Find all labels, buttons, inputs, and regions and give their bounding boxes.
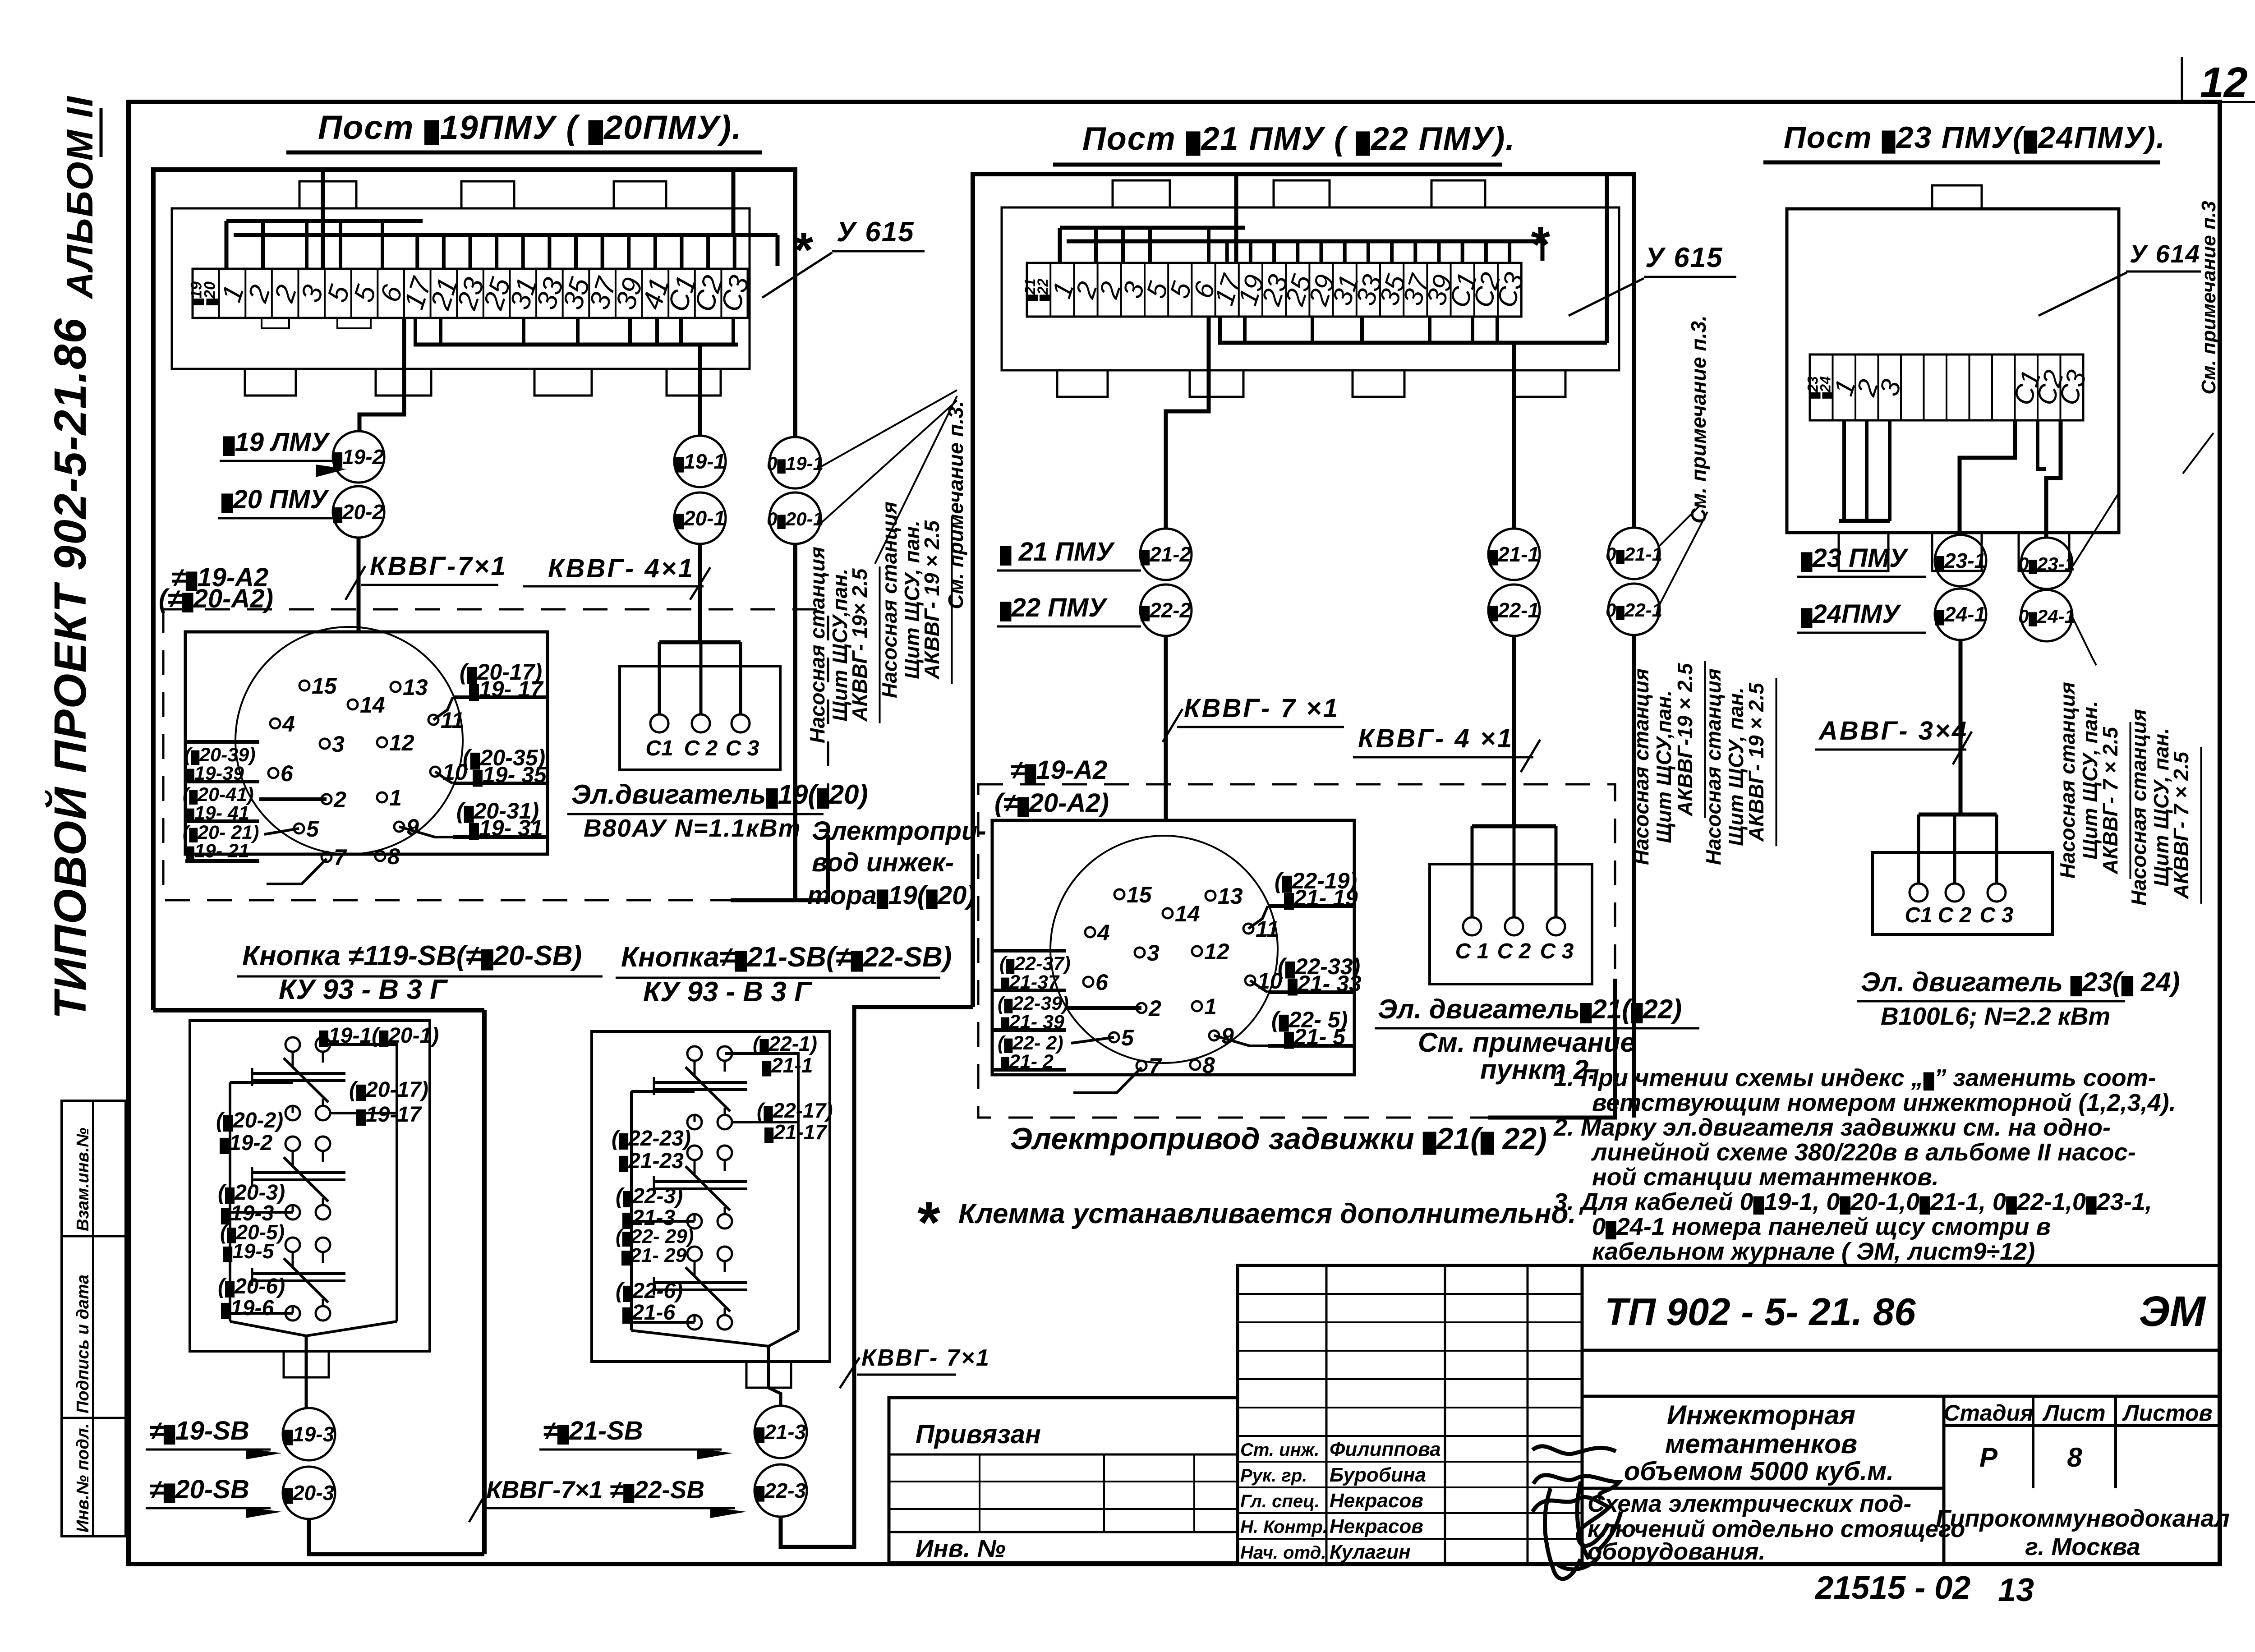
pin 14 B — [1163, 908, 1173, 918]
wire stub — [1390, 241, 1394, 263]
motor box A — [620, 666, 780, 770]
wire stub — [706, 235, 710, 269]
label rule left A — [185, 859, 259, 863]
label rule left B — [992, 1068, 1066, 1072]
leader 0-22-1 — [1660, 512, 1707, 604]
motor terminal C — [1988, 884, 2006, 902]
svg-text:Ст. инж.: Ст. инж. — [1240, 1440, 1319, 1460]
svg-text:Инжекторная: Инжекторная — [1667, 1400, 1855, 1430]
wire stub — [1243, 317, 1247, 343]
wire stub — [679, 318, 683, 345]
svg-text:8: 8 — [1202, 1053, 1215, 1078]
svg-text:14: 14 — [1175, 901, 1200, 926]
wire to 21-2 — [1166, 317, 1209, 528]
svg-text:Насосная станция: Насосная станция — [2127, 709, 2150, 906]
svg-text:2. Марку эл.двигателя задвижк: 2. Марку эл.двигателя задвижки см. на од… — [1553, 1114, 2111, 1141]
svg-text:0█20-1: 0█20-1 — [767, 508, 824, 529]
svg-text:вод инжек-: вод инжек- — [812, 848, 954, 877]
svg-text:3. Для кабелей 0█19-1, 0█20-1: 3. Для кабелей 0█19-1, 0█20-1,0█21-1, 0█… — [1554, 1188, 2152, 1215]
wire stub — [1296, 241, 1299, 263]
motor bus C — [1919, 813, 1997, 817]
wire 20-2 to connector — [357, 538, 361, 632]
svg-text:*: * — [1529, 217, 1551, 272]
wire stub — [1484, 241, 1488, 263]
svg-text:Насосная станция: Насосная станция — [878, 502, 901, 698]
svg-text:Подпись и дата: Подпись и дата — [74, 1275, 92, 1413]
connector circle outline B — [1050, 836, 1278, 1063]
contact A2 — [285, 1137, 300, 1151]
svg-text:Листов: Листов — [2122, 1400, 2212, 1426]
label rule left B — [992, 989, 1066, 992]
post B bottom tab 2 — [1190, 370, 1243, 397]
wire stub — [442, 235, 446, 269]
svg-text:АВВГ- 3×4: АВВГ- 3×4 — [1818, 716, 1968, 745]
motor bus A — [659, 640, 741, 644]
divider — [1582, 1395, 2220, 1398]
svg-text:0█19-1: 0█19-1 — [767, 453, 824, 474]
svg-text:Клемма устанавливается допол: Клемма устанавливается дополнительно. — [958, 1198, 1576, 1229]
motor terminal B — [1463, 917, 1481, 935]
svg-text:13: 13 — [1998, 1572, 2034, 1608]
title block signature table — [1238, 1265, 1582, 1564]
pin11 hook A — [433, 697, 453, 720]
wire to 19-2 — [359, 318, 404, 432]
motor terminal — [650, 714, 668, 732]
wire stub — [1311, 317, 1314, 343]
post C bottom tab 2 — [1932, 533, 1982, 571]
motor terminal — [692, 714, 710, 732]
slash — [345, 566, 365, 600]
svg-text:Взам.инв.№: Взам.инв.№ — [74, 1127, 92, 1231]
pin 9 A — [394, 822, 404, 832]
svg-text:13: 13 — [403, 675, 428, 700]
svg-text:Электропри-: Электропри- — [812, 816, 986, 846]
wire stub — [439, 318, 442, 345]
svg-text:7: 7 — [1149, 1054, 1162, 1079]
leader 0-21-1 — [1660, 505, 1700, 546]
wire stub — [653, 235, 657, 269]
label rule left A — [185, 780, 259, 783]
contact B3 — [687, 1247, 702, 1261]
label rule left A — [185, 740, 259, 744]
circle 23-1 — [1935, 535, 1986, 586]
frame top extension — [2220, 101, 2255, 103]
circle 0-24-1 — [2021, 590, 2072, 641]
leader join A — [875, 396, 957, 564]
pin 15 B — [1114, 889, 1124, 899]
wire stub — [1121, 228, 1125, 263]
pin 3 A — [320, 739, 330, 749]
motor terminal C — [1946, 884, 1964, 902]
svg-text:См. примечание: См. примечание — [1418, 1027, 1635, 1058]
label rule left A — [185, 819, 259, 823]
leader 0-23-1 — [2073, 492, 2120, 566]
pin 11 B — [1243, 924, 1253, 934]
pin10 hook A — [435, 772, 453, 783]
svg-text:█19-17: █19-17 — [356, 1103, 422, 1127]
svg-text:АКВВГ- 19× 2.5: АКВВГ- 19× 2.5 — [848, 568, 871, 722]
pin2 wire B — [1066, 1006, 1141, 1010]
svg-text:12: 12 — [2200, 59, 2248, 106]
svg-text:Пост █19ПМУ ( █20ПМУ).: Пост █19ПМУ ( █20ПМУ). — [318, 109, 742, 146]
svg-text:14: 14 — [360, 692, 385, 718]
svg-text:1: 1 — [1204, 994, 1217, 1019]
wire C3 to 0-23-1 — [2046, 420, 2061, 537]
wire 22-2 to connector B — [1164, 636, 1168, 820]
motor terminal C — [1910, 884, 1928, 902]
motor terminal B — [1547, 917, 1565, 935]
svg-text:0█24-1 номера панелей щсу: 0█24-1 номера панелей щсу смотри в — [1592, 1213, 2051, 1240]
pin10 hook B — [1250, 980, 1268, 992]
leader — [2039, 272, 2127, 316]
title block right part — [1582, 1265, 2220, 1564]
bus2 A — [234, 233, 778, 237]
dashed box B solid corner — [1488, 979, 1615, 1118]
wire stub — [1148, 228, 1152, 263]
svg-text:Некрасов: Некрасов — [1330, 1490, 1423, 1512]
post A bottom tab 2 — [376, 369, 431, 396]
label rule left B — [992, 949, 1066, 953]
svg-text:метантенков: метантенков — [1665, 1429, 1857, 1459]
svg-text:объемом 5000 куб.м.: объемом 5000 куб.м. — [1624, 1457, 1894, 1486]
terminal strip A — [193, 269, 748, 318]
svg-text:█21- 39: █21- 39 — [1001, 1011, 1064, 1033]
svg-text:Гипрокоммунводоканал: Гипрокоммунводоканал — [1936, 1505, 2230, 1532]
wire stub — [1225, 241, 1229, 263]
knopka A bottom join — [230, 1321, 397, 1336]
svg-text:Инв. №: Инв. № — [916, 1534, 1006, 1562]
svg-text:Щит ЩСУ,пан.: Щит ЩСУ,пан. — [1652, 690, 1675, 843]
svg-text:█19- 17: █19- 17 — [469, 676, 544, 702]
svg-text:С 2: С 2 — [1938, 903, 1972, 927]
connector circle outline A — [235, 627, 463, 854]
pin 8 A — [375, 851, 385, 861]
wire — [631, 1321, 695, 1324]
bus1 A end drop — [225, 221, 229, 269]
pin 1 A — [377, 792, 387, 802]
post A inner box — [172, 208, 750, 369]
wire stub — [1437, 241, 1441, 263]
wire stub — [414, 318, 417, 345]
wire — [767, 1346, 770, 1388]
pin 10 A — [430, 767, 440, 777]
post C top tab — [1932, 185, 1982, 209]
post C bottom tab 1 — [1839, 533, 1888, 571]
wire — [330, 1112, 397, 1114]
wire stub — [1272, 241, 1276, 263]
svg-text:2: 2 — [1148, 996, 1161, 1021]
wire stub — [1413, 241, 1417, 263]
svg-text:█21-23: █21-23 — [619, 1149, 684, 1173]
svg-text:0█22-1: 0█22-1 — [1606, 599, 1662, 621]
post B outer cable outline — [973, 174, 1634, 1007]
svg-text:3: 3 — [1147, 940, 1160, 966]
wire stub — [1207, 228, 1210, 263]
svg-text:█19 ЛМУ: █19 ЛМУ — [223, 428, 330, 457]
post A top tab 3 — [614, 181, 666, 208]
pin 11 A — [428, 715, 438, 725]
svg-text:Некрасов: Некрасов — [1330, 1515, 1423, 1537]
svg-text:4: 4 — [282, 711, 295, 736]
leader C note — [2183, 433, 2214, 474]
wire stub — [1360, 317, 1364, 343]
slash — [690, 567, 710, 600]
pin 2 A — [322, 794, 331, 804]
stadiya divider — [2032, 1396, 2034, 1488]
wire — [725, 1054, 798, 1060]
svg-text:Пост █21 ПМУ ( █22 ПМУ).: Пост █21 ПМУ ( █22 ПМУ). — [1082, 121, 1515, 157]
pin5 wire B — [1071, 1037, 1114, 1043]
svg-text:АКВВГ-19 × 2.5: АКВВГ-19 × 2.5 — [1673, 663, 1697, 816]
stadiya header underline — [1944, 1424, 2220, 1427]
knopka B left bus — [630, 1091, 633, 1330]
svg-text:15: 15 — [312, 673, 337, 699]
svg-text:15: 15 — [1127, 882, 1152, 907]
wire to 21-1 — [1512, 343, 1516, 528]
svg-text:Р: Р — [1979, 1442, 1998, 1473]
post C bottom tab 3 — [2019, 533, 2069, 571]
leader — [762, 253, 832, 298]
svg-text:В80АУ N=1.1кВт: В80АУ N=1.1кВт — [584, 814, 801, 842]
wire stub — [1428, 317, 1431, 343]
wire — [631, 1090, 695, 1093]
svg-text:АКВВГ- 19 × 2.5: АКВВГ- 19 × 2.5 — [1744, 682, 1768, 842]
contact B1 — [687, 1046, 702, 1061]
wire stub — [339, 221, 342, 269]
SB cable B — [781, 1007, 973, 1547]
pin 5 A — [294, 824, 304, 833]
knopka A right bus — [396, 1045, 398, 1321]
svg-text:█19- 31: █19- 31 — [469, 815, 543, 841]
contact A1 — [285, 1037, 300, 1052]
wire stub — [1320, 241, 1323, 263]
post B inner box — [1002, 207, 1619, 370]
wire stub — [548, 235, 551, 269]
pin7 wire A — [267, 859, 327, 884]
svg-text:Лист: Лист — [2042, 1400, 2105, 1426]
wire C1 to 23-1 — [1960, 420, 2015, 534]
svg-text:█ 21 ПМУ: █ 21 ПМУ — [1000, 537, 1115, 566]
svg-text:█19- 41: █19- 41 — [186, 802, 249, 824]
svg-text:5: 5 — [1121, 1025, 1134, 1050]
wire stub — [521, 235, 525, 269]
connector box B — [992, 820, 1354, 1075]
pin 12 A — [377, 737, 387, 747]
svg-text:АКВВГ- 19 × 2.5: АКВВГ- 19 × 2.5 — [920, 520, 943, 680]
svg-text:С1: С1 — [645, 736, 673, 760]
motor wire C — [1917, 814, 1920, 884]
cable riser A (KVVG to SB) — [482, 1010, 487, 1554]
wire — [305, 1377, 308, 1408]
wire stub — [601, 235, 604, 269]
label rule right A — [453, 695, 548, 699]
leader 0-20-1 — [821, 400, 957, 523]
post A top tab 1 — [299, 181, 356, 208]
wire stub — [732, 318, 735, 345]
svg-text:1. При чтении схемы индекс „█: 1. При чтении схемы индекс „█” заменить … — [1554, 1064, 2156, 1091]
pin2 wire A — [259, 797, 327, 801]
connector circle 19-2 — [333, 431, 384, 483]
slash — [1163, 709, 1183, 742]
contact A3 — [285, 1238, 300, 1252]
circle 0-22-1 — [1608, 584, 1660, 635]
wire 20-1 to motor — [698, 544, 702, 642]
knopka box B — [592, 1031, 830, 1362]
svg-text:Насосная станция: Насосная станция — [1702, 668, 1725, 865]
motor wire B — [1471, 826, 1474, 917]
pin 7 A — [322, 852, 331, 862]
wire — [323, 1045, 397, 1051]
wire stub — [1343, 241, 1347, 263]
wire stub — [1218, 317, 1222, 343]
wire C2 — [2038, 420, 2046, 469]
svg-text:8: 8 — [2067, 1442, 2082, 1473]
svg-text:Насосная станция: Насосная станция — [1629, 668, 1653, 865]
bus2 A right drop — [776, 235, 780, 266]
svg-text:Кнопка ≠119-SB(≠█20-SB): Кнопка ≠119-SB(≠█20-SB) — [242, 940, 582, 971]
svg-text:С 2: С 2 — [1497, 939, 1531, 963]
svg-text:См. примечание п.3: См. примечание п.3 — [2198, 201, 2220, 394]
divider under TP — [1582, 1349, 2220, 1352]
pin 15 A — [299, 681, 309, 690]
circle 24-1 — [1935, 589, 1986, 640]
post B top tab 1 — [1113, 180, 1170, 207]
svg-text:0█21-1: 0█21-1 — [1606, 543, 1662, 565]
svg-text:4: 4 — [1097, 920, 1110, 945]
post B bottom tab 3 — [1353, 370, 1404, 397]
circle 0-23-1 — [2021, 538, 2072, 589]
motor wire — [739, 642, 742, 714]
svg-text:Н. Контр.: Н. Контр. — [1240, 1517, 1328, 1537]
label rule right A — [453, 782, 548, 785]
pin 14 A — [348, 699, 358, 709]
svg-text:█21- 29: █21- 29 — [621, 1244, 687, 1266]
label rule right A — [453, 835, 548, 839]
slash — [1521, 740, 1540, 772]
svg-text:Насосная станция: Насосная станция — [805, 547, 829, 743]
svg-text:Нач. отд.: Нач. отд. — [1240, 1543, 1326, 1563]
svg-text:КУ 93 - В 3 Г: КУ 93 - В 3 Г — [643, 976, 813, 1008]
svg-text:Электропривод задвижки █21(█: Электропривод задвижки █21(█ 22) — [1010, 1122, 1547, 1156]
svg-text:█21-37: █21-37 — [1001, 971, 1060, 993]
wire stub — [1249, 241, 1252, 263]
svg-text:Пост █23 ПМУ(█24ПМУ).: Пост █23 ПМУ(█24ПМУ). — [1784, 120, 2166, 155]
svg-text:С 2: С 2 — [684, 736, 718, 760]
pin 5 B — [1109, 1032, 1119, 1042]
circle 22-3 — [755, 1464, 807, 1517]
svg-text:КВВГ- 4 ×1: КВВГ- 4 ×1 — [1358, 724, 1514, 753]
svg-text:КВВГ-7×1 ≠█22-SB: КВВГ-7×1 ≠█22-SB — [486, 1476, 704, 1504]
signatures scribble — [1532, 1446, 1621, 1579]
knopka B right bus — [797, 1054, 800, 1330]
bus2 B right drop — [1541, 241, 1545, 261]
svg-text:█22 ПМУ: █22 ПМУ — [1000, 593, 1108, 622]
svg-text:АКВВГ- 7 × 2.5: АКВВГ- 7 × 2.5 — [2099, 726, 2122, 874]
wire stub — [628, 318, 632, 345]
svg-text:Кнопка≠█21-SB(≠█22-SB): Кнопка≠█21-SB(≠█22-SB) — [621, 942, 952, 973]
svg-text:Инв.№ подл.: Инв.№ подл. — [74, 1423, 92, 1532]
svg-text:КВВГ- 7×1: КВВГ- 7×1 — [861, 1345, 990, 1371]
label rule right B — [1268, 904, 1354, 908]
post A title underline — [286, 151, 762, 155]
slash — [840, 1357, 860, 1388]
divider — [1582, 1487, 1944, 1490]
pin 4 A — [270, 718, 280, 728]
dashed box A solid corner — [731, 835, 828, 900]
post B title underline — [1053, 163, 1502, 167]
wire stub — [305, 221, 308, 269]
wire stub — [1094, 228, 1098, 263]
connector circle 19-1 — [674, 436, 726, 487]
privyazan table — [889, 1398, 1238, 1563]
post A bottom edge — [153, 1008, 484, 1012]
post A top tab 2 — [461, 181, 514, 208]
motor box B — [1430, 864, 1592, 984]
post A outer cable outline — [153, 170, 795, 1010]
pin 6 A — [268, 768, 278, 778]
svg-text:С 3: С 3 — [1540, 939, 1574, 963]
wire stub — [1367, 241, 1370, 263]
svg-text:9: 9 — [406, 814, 419, 840]
terminal strip C — [1810, 354, 2083, 420]
svg-text:У 615: У 615 — [837, 216, 915, 248]
motor wire C — [1995, 814, 1998, 884]
svg-text:г. Москва: г. Москва — [2025, 1533, 2140, 1560]
svg-text:7: 7 — [334, 845, 347, 870]
wire stub C — [1842, 420, 1846, 521]
wire stub — [576, 318, 580, 345]
wire stub C — [1888, 420, 1891, 521]
svg-text:Насосная станция: Насосная станция — [2056, 682, 2079, 879]
connector box A — [185, 632, 548, 854]
pin9 hook A — [399, 827, 453, 837]
svg-text:С 3: С 3 — [726, 736, 759, 760]
svg-text:оборудования.: оборудования. — [1588, 1538, 1765, 1565]
right bracket B — [1605, 174, 1609, 343]
bus C left — [1839, 519, 1890, 523]
connector circle 20-2 — [333, 486, 384, 538]
post B top tab 2 — [1274, 180, 1330, 207]
svg-text:12: 12 — [1204, 939, 1229, 964]
svg-text:Рук. гр.: Рук. гр. — [1240, 1466, 1307, 1486]
connector circle 20-1 — [674, 492, 726, 544]
svg-text:См. примечание п.3.: См. примечание п.3. — [944, 401, 967, 609]
post C title underline — [1763, 161, 2160, 165]
svg-text:█19- 21: █19- 21 — [186, 840, 249, 862]
svg-text:АКВВГ- 7 × 2.5: АКВВГ- 7 × 2.5 — [2169, 751, 2193, 899]
svg-text:8: 8 — [387, 844, 400, 869]
pin 13 B — [1206, 891, 1215, 901]
motor box C — [1873, 852, 2053, 934]
dashed enclosure A — [163, 609, 828, 900]
svg-text:█21-17: █21-17 — [764, 1120, 828, 1144]
svg-text:9: 9 — [1221, 1023, 1234, 1049]
connector circle 0-20-1 — [769, 492, 821, 544]
svg-text:█21- 19: █21- 19 — [1284, 885, 1358, 911]
knopka A tab — [284, 1351, 329, 1377]
wire stub — [495, 235, 498, 269]
feeder wire A left — [321, 170, 325, 269]
svg-text:кабельном журнале ( ЭМ, л: кабельном журнале ( ЭМ, лист9÷12) — [1592, 1238, 2035, 1265]
wire stub — [627, 235, 630, 269]
svg-text:ТИПОВОЙ ПРОЕКТ 902-5-21.86: ТИПОВОЙ ПРОЕКТ 902-5-21.86 — [44, 318, 96, 1019]
pin 10 B — [1245, 976, 1255, 985]
circle 20-3 — [283, 1467, 335, 1519]
circle 0-21-1 — [1608, 528, 1660, 579]
svg-text:█19-39: █19-39 — [186, 763, 244, 784]
circle 19-3 — [283, 1408, 335, 1460]
svg-text:ТП 902 - 5- 21. 86: ТП 902 - 5- 21. 86 — [1605, 1291, 1916, 1334]
